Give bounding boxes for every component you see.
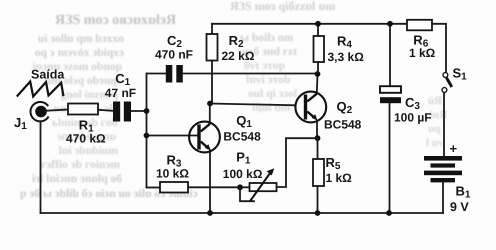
svg-text:P1: P1 [236, 150, 251, 167]
resistor R5 [313, 159, 324, 186]
svg-text:Q2: Q2 [337, 99, 353, 116]
svg-text:9 V: 9 V [450, 200, 469, 214]
svg-text:R5: R5 [326, 155, 341, 172]
wire node A vertical (C2 left / C1 / Q1 base / R3) [146, 74, 148, 188]
resistor R4 [314, 36, 325, 62]
svg-text:22 kΩ: 22 kΩ [222, 49, 255, 63]
svg-text:100 kΩ: 100 kΩ [223, 167, 263, 181]
wire C1 to node A [131, 110, 147, 112]
svg-text:оul qi ззol: оul qi ззol [248, 88, 297, 100]
svg-text:ы boilз om: ы boilз om [240, 32, 294, 44]
svg-text:iэl lɒiɔnɒ эnɒlq oб: iэl lɒiɔnɒ эnɒlq oб [32, 173, 122, 185]
wire P1 left lead [240, 186, 250, 188]
wire R4 bottom lead [317, 62, 319, 74]
svg-text:ЯЗЅ moз qiбzzɒl ɒɯ: ЯЗЅ moз qiбzzɒl ɒɯ [230, 0, 335, 13]
wire P1 wiper tie loop [240, 187, 254, 201]
switch S1 [442, 73, 452, 93]
capacitor C1 plates [113, 102, 131, 122]
svg-text:R4: R4 [337, 34, 352, 51]
capacitor C2 plates [166, 65, 183, 83]
resistor R6 [407, 20, 432, 31]
potentiometer P1 [250, 168, 277, 201]
node C1/C2/base [144, 108, 150, 114]
wire top rail right stub to S1 column [432, 24, 446, 73]
wire C3 bottom lead to ground [389, 104, 391, 214]
svg-text:S1: S1 [453, 66, 468, 83]
wire node A to R3 [147, 187, 161, 189]
wire R5 bottom lead to ground [317, 186, 319, 213]
svg-text:10 kΩ: 10 kΩ [156, 167, 189, 181]
ground node Q1 emitter [207, 210, 213, 216]
wire ground bottom rail [41, 212, 444, 214]
resistor R2 [207, 34, 218, 61]
svg-text:3,3 kΩ: 3,3 kΩ [328, 50, 365, 64]
node P1 left [237, 184, 243, 190]
transistor Q1 [189, 122, 220, 153]
wire Q2 collector up to R4 bottom node [316, 74, 319, 94]
svg-text:+: + [450, 141, 458, 156]
svg-text:ЯЗЅ moɔ oяɔɒxɒlэЯ: ЯЗЅ moɔ oяɔɒxɒlэЯ [55, 13, 176, 28]
svg-text:1 kΩ: 1 kΩ [409, 46, 436, 60]
wire C2 right plate to R4 bottom node [183, 73, 318, 75]
capacitor C3 electrolytic [380, 86, 401, 93]
svg-text:B1: B1 [456, 184, 471, 201]
wire Q1 collector node to Q2 base [210, 104, 295, 106]
svg-text:Q1: Q1 [236, 113, 252, 130]
svg-text:ɒq: ɒq [428, 123, 441, 135]
svg-text:C3: C3 [405, 95, 420, 112]
svg-text:lɒi эbɒbium: lɒi эbɒbium [59, 145, 119, 157]
resistor R1 [68, 104, 98, 115]
svg-text:BC548: BC548 [324, 118, 362, 132]
svg-text:100 µF: 100 µF [394, 111, 432, 125]
svg-text:470 kΩ: 470 kΩ [66, 131, 106, 145]
wire top rail (+V) [212, 23, 407, 25]
wire J1 tip to R1 [47, 110, 68, 111]
resistor R3 [160, 182, 188, 193]
wire R2 bottom lead to Q1 collector node [211, 61, 213, 104]
wire R3 to P1 (crosses emitter line) [188, 186, 240, 188]
wire R5 top lead [317, 138, 319, 159]
svg-text:470 nF: 470 nF [155, 48, 193, 62]
node Q2 emitter / R5 / P1 [315, 135, 321, 141]
svg-text:lɒvi этob: lɒvi этob [246, 74, 290, 86]
svg-text:BC548: BC548 [223, 129, 261, 143]
node rail C3 [387, 21, 393, 27]
svg-text:l ɒv: l ɒv [426, 137, 444, 149]
node Q1 collector [207, 101, 213, 107]
wire P1 right lead up to Q2 emitter node [277, 138, 318, 187]
wire Q2 emitter down to node [316, 121, 318, 138]
node R4 bottom / Q2 collector [315, 71, 321, 77]
wire J1 sleeve down to ground rail [40, 121, 42, 213]
wire C3 top lead from rail [389, 24, 391, 86]
svg-text:ui зollɒ qm bэxxo: ui зollɒ qm bэxxo [38, 33, 124, 45]
ground node C3 [386, 210, 392, 216]
wire S1 bottom to battery + [443, 93, 445, 157]
svg-text:J1: J1 [14, 115, 27, 132]
sawtooth signal symbol [17, 82, 64, 97]
jack J1 [30, 102, 48, 121]
bleed-through page text (faint, mirrored) [20, 0, 447, 200]
svg-text:Saída: Saída [31, 68, 65, 82]
svg-text:oq э mэvóx эbiqxэ: oq э mэvóx эbiqxэ [35, 47, 124, 59]
wire Q1 collector up to node [209, 104, 211, 124]
battery B1 [424, 156, 462, 182]
wire R2 top lead [211, 24, 213, 34]
svg-text:üЯ: üЯ [428, 95, 442, 107]
wire R1 to C1 [98, 110, 113, 111]
node rail R4 [315, 21, 321, 27]
wire node A to C2 left plate [147, 73, 166, 75]
svg-text:1 kΩ: 1 kΩ [326, 171, 353, 185]
wire battery - down to ground rail [442, 183, 444, 214]
svg-text:гэffio эb гoinэm: гэffio эb гoinэm [41, 159, 120, 171]
transistor Q2 [295, 92, 326, 123]
ground node R5 [315, 210, 321, 216]
wire Q1 emitter down to ground [209, 151, 211, 214]
svg-text:47 nF: 47 nF [105, 86, 136, 100]
wire R4 top lead [317, 24, 319, 36]
wire Q1 base [147, 135, 198, 137]
